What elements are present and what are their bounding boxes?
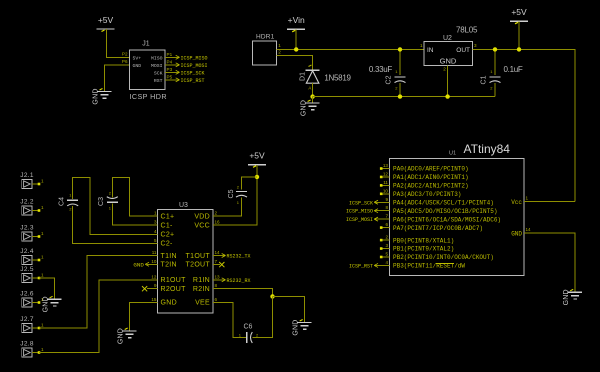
svg-text:+5V: +5V (249, 151, 265, 161)
svg-text:5: 5 (154, 238, 157, 243)
svg-text:5: 5 (385, 251, 388, 256)
wire J2.8 to R1OUT (39, 280, 151, 353)
svg-text:OUT: OUT (456, 47, 470, 54)
svg-text:PB2(PCINT10/INT0/OC0A/CKOUT): PB2(PCINT10/INT0/OC0A/CKOUT) (393, 254, 494, 261)
U1 pin 1 Vcc (511, 196, 528, 206)
wire J2.7 to T1IN (39, 256, 151, 329)
svg-text:10: 10 (383, 188, 389, 193)
U1 pin 11 PA2 (380, 180, 469, 190)
capacitor C5 (213, 177, 257, 216)
net label GND at T2IN (133, 261, 150, 268)
power +5V (top right) (510, 7, 528, 24)
svg-text:3: 3 (474, 43, 477, 48)
svg-text:C1-: C1- (161, 222, 174, 229)
svg-text:1: 1 (41, 231, 44, 236)
U3 pin 8 R2IN (193, 283, 220, 293)
wire junction to ground (273, 296, 305, 322)
svg-text:C5: C5 (228, 189, 235, 198)
U1 pin 13 PA0 (380, 163, 469, 173)
svg-text:ICSP_SCK: ICSP_SCK (349, 200, 373, 206)
wire output rail (473, 49, 576, 201)
svg-text:PA7(PCINT7/ICP/OC0B/ADC7): PA7(PCINT7/ICP/OC0B/ADC7) (393, 225, 483, 232)
svg-text:P3: P3 (167, 67, 173, 72)
no-connect R2OUT (147, 288, 151, 290)
U3 pin 7 T2OUT (186, 259, 220, 269)
svg-text:T2IN: T2IN (161, 262, 177, 269)
net label ICSP_RST (176, 78, 205, 84)
svg-text:1: 1 (526, 196, 529, 201)
U3 pin 12 R1OUT (151, 275, 187, 285)
svg-text:14: 14 (215, 250, 221, 255)
svg-text:7: 7 (215, 259, 218, 264)
svg-text:P5: P5 (167, 75, 173, 80)
wire Vcc stub (524, 201, 575, 203)
svg-text:PA3(ADC3/T0/PCINT3): PA3(ADC3/T0/PCINT3) (393, 191, 461, 198)
svg-text:+5V: +5V (98, 15, 114, 25)
ground (input) (301, 100, 320, 116)
svg-text:ICSP HDR: ICSP HDR (130, 92, 167, 101)
svg-text:8: 8 (385, 205, 388, 210)
svg-text:MOSI: MOSI (151, 63, 163, 69)
svg-text:+Vin: +Vin (288, 15, 305, 25)
svg-text:12: 12 (383, 171, 389, 176)
svg-text:J2.1: J2.1 (20, 172, 34, 179)
svg-text:0.33uF: 0.33uF (369, 65, 393, 74)
svg-text:15: 15 (151, 297, 157, 302)
connector J2.4 (20, 248, 44, 265)
svg-text:PB1(PCINT9/XTAL2): PB1(PCINT9/XTAL2) (393, 246, 454, 253)
node C5 junction (255, 175, 259, 179)
svg-text:1: 1 (41, 323, 44, 328)
svg-text:ICSP_SCK: ICSP_SCK (181, 70, 205, 76)
U1 pin 14 GND (511, 227, 531, 237)
connector HDR1 (253, 34, 277, 65)
svg-text:PA2(ADC2/AIN1/PCINT2): PA2(ADC2/AIN1/PCINT2) (393, 183, 469, 190)
svg-text:U1: U1 (449, 150, 456, 156)
U1 pin 9 PA4 (349, 197, 494, 207)
svg-text:GND: GND (301, 100, 308, 116)
svg-text:13: 13 (215, 275, 221, 280)
wire +Vin drop (295, 29, 297, 49)
svg-text:3: 3 (385, 243, 388, 248)
node C2 bottom (398, 94, 402, 98)
svg-text:14: 14 (526, 227, 532, 232)
svg-text:T2OUT: T2OUT (186, 262, 211, 269)
wire U3 GND to ground (130, 302, 151, 331)
svg-text:7: 7 (385, 214, 388, 219)
svg-text:PA6(PCINT6/OC1A/SDA/MOSI/ADC6): PA6(PCINT6/OC1A/SDA/MOSI/ADC6) (393, 216, 501, 223)
wire diode anode to ground rail (312, 83, 314, 96)
svg-text:+5V: +5V (511, 7, 527, 17)
svg-text:ICSP_MOSI: ICSP_MOSI (346, 217, 373, 223)
svg-text:J2.5: J2.5 (20, 266, 34, 273)
svg-text:J2.4: J2.4 (20, 248, 34, 255)
net label ICSP_MISO (176, 55, 208, 61)
node Vin junction (294, 47, 298, 51)
svg-text:C4: C4 (59, 197, 66, 206)
net label RS232_RX (220, 278, 251, 284)
power +5V (above C5) (248, 151, 266, 168)
svg-text:VEE: VEE (195, 300, 210, 307)
svg-text:1: 1 (41, 273, 44, 278)
wire HDR1 pin2 to diode (277, 55, 313, 70)
wire J1 pin P6 to ground (105, 65, 130, 92)
svg-text:RS232_TX: RS232_TX (227, 254, 251, 260)
svg-text:GND: GND (133, 63, 142, 69)
wire input rail HDR1 pin1 to U2 IN (277, 48, 424, 50)
svg-text:PB0(PCINT8/XTAL1): PB0(PCINT8/XTAL1) (393, 237, 454, 244)
svg-text:1: 1 (41, 255, 44, 260)
svg-text:VDD: VDD (194, 213, 210, 220)
wire R2IN to junction (220, 289, 273, 297)
svg-text:4: 4 (385, 260, 388, 265)
svg-text:2: 2 (443, 67, 446, 72)
svg-text:2: 2 (278, 49, 281, 54)
svg-text:P4: P4 (167, 60, 173, 65)
connector J2.7 (20, 316, 44, 333)
U2 pin 2 GND stub (447, 65, 449, 96)
wire J2.5 to ground (39, 278, 55, 299)
wire VEE to C6 (213, 302, 246, 337)
svg-text:C1+: C1+ (161, 213, 175, 220)
regulator U2 78L05 (424, 25, 478, 65)
U1 pin 6 PA7 (380, 222, 483, 232)
U3 pin 10 T2IN (151, 259, 177, 269)
svg-text:ICSP_MISO: ICSP_MISO (181, 55, 208, 61)
J1 pin P4 stub (165, 64, 179, 66)
svg-text:A: A (308, 85, 311, 90)
U3 pin 2 VDD (194, 211, 220, 221)
svg-text:GND: GND (133, 261, 144, 268)
svg-text:R2IN: R2IN (193, 286, 210, 293)
ground (J2.5) (43, 296, 62, 312)
svg-text:IN: IN (427, 47, 434, 54)
net label ICSP_MOSI (176, 63, 208, 69)
U1 pin 10 PA3 (380, 188, 462, 198)
ground (ICSP) (93, 88, 112, 104)
J1 pin P5 stub (165, 79, 179, 81)
svg-text:R1IN: R1IN (193, 277, 210, 284)
svg-text:1: 1 (41, 205, 44, 210)
wire +5V to J1 pin P2 (107, 29, 130, 57)
node C1 top (493, 47, 497, 51)
U3 pin 1 C1+ (151, 211, 175, 221)
svg-text:3: 3 (154, 220, 157, 225)
svg-text:4: 4 (154, 229, 157, 234)
svg-text:10: 10 (151, 259, 157, 264)
svg-text:PA4(ADC4/USCK/SCL/T1/PCINT4): PA4(ADC4/USCK/SCL/T1/PCINT4) (393, 199, 494, 206)
svg-text:11: 11 (152, 250, 157, 255)
node R2IN junction (270, 294, 274, 298)
svg-text:78L05: 78L05 (456, 25, 478, 34)
diode D1 (300, 65, 320, 90)
svg-text:P6: P6 (122, 59, 128, 64)
wire to input ground (312, 97, 314, 103)
capacitor C1 (481, 49, 501, 96)
svg-text:1: 1 (420, 43, 423, 48)
svg-text:J2.3: J2.3 (20, 225, 34, 232)
wire +5V drop (518, 21, 520, 49)
connector J2.2 (20, 199, 44, 216)
U3 pin 11 T1IN (151, 250, 177, 260)
power +Vin (287, 15, 305, 32)
J1 pin P3 stub (165, 71, 179, 73)
U1 pin 7 PA6 (346, 214, 501, 224)
connector J2.8 (20, 341, 44, 358)
node C2 top (398, 47, 402, 51)
svg-text:J2.2: J2.2 (20, 199, 34, 206)
svg-text:C2+: C2+ (161, 232, 175, 239)
wire C6 to junction (253, 296, 273, 337)
svg-text:0.1uF: 0.1uF (504, 65, 523, 74)
svg-text:C2-: C2- (161, 241, 174, 248)
svg-text:P1: P1 (167, 52, 173, 57)
U1 pin 2 PB0 (380, 235, 454, 245)
svg-text:PA5(ADC5/DO/MISO/OC1B/PCINT5): PA5(ADC5/DO/MISO/OC1B/PCINT5) (393, 208, 497, 215)
connector J1 ICSP HDR (130, 41, 167, 102)
svg-text:J2.8: J2.8 (20, 341, 34, 348)
svg-text:1: 1 (278, 43, 281, 48)
no-connect T2OUT (219, 262, 224, 267)
svg-text:C2: C2 (386, 75, 393, 84)
svg-text:C3: C3 (98, 197, 105, 206)
svg-text:13: 13 (383, 163, 389, 168)
svg-text:6: 6 (215, 297, 218, 302)
svg-text:J2.6: J2.6 (20, 291, 34, 298)
svg-text:GND: GND (43, 296, 50, 312)
svg-text:2: 2 (215, 211, 218, 216)
svg-text:ICSP_RST: ICSP_RST (181, 78, 205, 84)
driver U3 (158, 202, 214, 313)
svg-text:PA1(ADC1/AIN0/PCINT1): PA1(ADC1/AIN0/PCINT1) (393, 174, 469, 181)
svg-text:11: 11 (383, 180, 388, 185)
U3 pin 9 R2OUT (151, 283, 187, 293)
svg-text:9: 9 (154, 283, 157, 288)
mcu U1 ATtiny84 (390, 142, 525, 276)
svg-text:1: 1 (41, 347, 44, 352)
svg-text:U3: U3 (179, 202, 188, 209)
svg-text:PB3(PCINT11/RESET/dW: PB3(PCINT11/RESET/dW (393, 263, 465, 270)
svg-text:SCK: SCK (154, 70, 163, 76)
svg-text:1: 1 (154, 211, 157, 216)
svg-text:1N5819: 1N5819 (324, 74, 351, 83)
node U2 gnd junction (445, 94, 449, 98)
svg-text:GND: GND (161, 300, 177, 307)
U3 pin 14 T1OUT (186, 250, 221, 260)
svg-text:ICSP_MOSI: ICSP_MOSI (181, 63, 208, 69)
svg-text:ATtiny84: ATtiny84 (464, 142, 511, 156)
svg-text:T1OUT: T1OUT (186, 253, 211, 260)
svg-text:GND: GND (440, 56, 457, 65)
connector J2.1 (20, 172, 44, 189)
svg-text:J1: J1 (142, 41, 150, 48)
capacitor C4 (59, 178, 158, 244)
wire +5V drop to VCC (213, 165, 257, 225)
svg-text:HDR1: HDR1 (256, 34, 275, 41)
svg-text:P2: P2 (122, 51, 128, 56)
svg-text:R2OUT: R2OUT (161, 286, 187, 293)
power +5V (ICSP) (97, 15, 115, 32)
svg-text:ICSP_MISO: ICSP_MISO (346, 209, 373, 215)
svg-text:2: 2 (385, 235, 388, 240)
U3 pin 5 C2- (151, 238, 174, 248)
svg-text:ICSP_RST: ICSP_RST (349, 263, 373, 269)
wire ground rail (313, 96, 495, 98)
svg-text:D1: D1 (300, 72, 307, 81)
J1 pin P1 stub (165, 56, 179, 58)
capacitor C3 (98, 178, 158, 226)
connector J2.6 (20, 291, 44, 308)
svg-text:U2: U2 (443, 35, 452, 42)
ground (R2IN) (293, 319, 312, 335)
svg-text:MISO: MISO (151, 55, 163, 61)
svg-text:12: 12 (151, 275, 157, 280)
svg-text:1: 1 (41, 179, 44, 184)
capacitor C6 (239, 324, 259, 343)
connector J2.3 (20, 225, 44, 242)
svg-text:RS232_RX: RS232_RX (227, 278, 251, 284)
svg-text:PA0(ADC0/AREF/PCINT0): PA0(ADC0/AREF/PCINT0) (393, 166, 469, 173)
wire GND to ground (524, 233, 575, 292)
svg-text:R1OUT: R1OUT (161, 277, 187, 284)
svg-text:8: 8 (215, 283, 218, 288)
U1 RESET overline (436, 262, 454, 264)
svg-text:5V+: 5V+ (133, 55, 142, 61)
svg-text:16: 16 (215, 220, 221, 225)
svg-text:6: 6 (385, 222, 388, 227)
U1 pin 5 PB2 (380, 251, 494, 261)
U3 pin 3 C1- (151, 220, 174, 230)
U1 pin 4 PB3 (349, 260, 465, 270)
svg-text:VCC: VCC (194, 222, 210, 229)
U1 pin 8 PA5 (346, 205, 497, 215)
ground (U3) (118, 328, 137, 344)
ground (U1) (563, 289, 582, 305)
net label ICSP_SCK (176, 70, 205, 76)
svg-text:C6: C6 (244, 324, 253, 331)
svg-text:RST: RST (154, 78, 163, 84)
U3 pin 4 C2+ (151, 229, 175, 239)
node diode-gnd junction (310, 94, 314, 98)
U1 pin 12 PA1 (380, 171, 469, 181)
svg-text:GND: GND (293, 319, 300, 335)
U3 pin 16 VCC (194, 220, 220, 230)
svg-text:T1IN: T1IN (161, 253, 177, 260)
svg-text:GND: GND (563, 289, 570, 305)
svg-text:GND: GND (93, 88, 100, 104)
svg-text:9: 9 (385, 197, 388, 202)
U3 pin 13 R1IN (193, 275, 220, 285)
svg-text:C1: C1 (481, 75, 488, 84)
U3 pin 6 VEE (195, 297, 220, 307)
svg-text:J2.7: J2.7 (20, 316, 34, 323)
svg-text:GND: GND (511, 230, 522, 237)
U1 pin 3 PB1 (380, 243, 454, 253)
connector J2.5 (20, 266, 44, 283)
svg-text:Vcc: Vcc (511, 199, 522, 206)
svg-text:GND: GND (118, 328, 125, 344)
node +5V junction (517, 47, 521, 51)
capacitor C2 (386, 49, 406, 96)
U3 pin 15 GND (151, 297, 177, 307)
net label RS232_TX (220, 254, 251, 260)
